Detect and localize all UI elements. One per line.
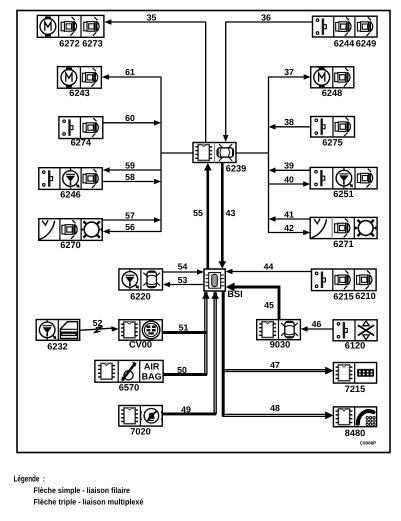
- svg-text:47: 47: [270, 360, 280, 370]
- component 7215 display: [333, 363, 376, 384]
- component 6271 fuel flap: [310, 217, 377, 238]
- wire bus to 6239: [161, 152, 193, 154]
- svg-text:9030: 9030: [270, 340, 290, 350]
- arrowhead 47: [325, 367, 333, 375]
- svg-text:36: 36: [261, 13, 271, 23]
- svg-text:6274: 6274: [71, 138, 92, 148]
- wire 48 double line: [222, 413, 327, 415]
- svg-text:Flèche simple - liaison filair: Flèche simple - liaison filaire: [34, 486, 131, 495]
- component 6251: [310, 167, 377, 189]
- right bus wire: [268, 77, 270, 234]
- svg-text:46: 46: [312, 319, 322, 329]
- component 6232: [36, 320, 79, 341]
- component 6244/6249: [313, 16, 378, 37]
- svg-text:6251: 6251: [333, 189, 353, 199]
- svg-text:54: 54: [178, 262, 188, 272]
- svg-text:43: 43: [226, 208, 236, 218]
- arrowhead 44: [226, 269, 233, 275]
- frame border: [17, 11, 390, 453]
- arrowhead 55 up: [204, 163, 212, 171]
- component CV00 steering column: [119, 320, 162, 341]
- svg-text:Flèche triple - liaison multip: Flèche triple - liaison multiplexé: [34, 498, 144, 507]
- arrowhead 52: [111, 326, 118, 332]
- arrowhead 38: [269, 124, 276, 130]
- component 6270 fuel flap: [39, 219, 102, 241]
- component 6239 central unit: [193, 143, 236, 163]
- svg-text:6239: 6239: [226, 164, 246, 174]
- svg-text:C8088P: C8088P: [360, 441, 376, 446]
- arrowhead 45: [226, 283, 235, 292]
- svg-text:6243: 6243: [69, 88, 89, 98]
- svg-text:6220: 6220: [130, 292, 150, 302]
- wire 56: [109, 231, 161, 233]
- wire 39: [275, 169, 310, 171]
- svg-text:56: 56: [125, 222, 135, 232]
- svg-text:Légende :: Légende :: [14, 474, 46, 484]
- svg-text:53: 53: [178, 275, 188, 285]
- component 6220: [119, 269, 163, 290]
- wire 49 thick: [162, 412, 216, 415]
- svg-text:6271: 6271: [333, 239, 353, 249]
- component 6246: [39, 168, 102, 190]
- component 6243 motor: [58, 67, 102, 89]
- component 6120 window switch: [333, 320, 377, 341]
- svg-text:6270: 6270: [60, 240, 80, 250]
- svg-text:60: 60: [125, 113, 135, 123]
- svg-text:6246: 6246: [60, 190, 80, 200]
- wire 43 thick multiplex: [221, 163, 224, 262]
- wire 57: [102, 219, 155, 221]
- arrowhead 39: [269, 168, 276, 174]
- svg-text:6275: 6275: [322, 138, 342, 148]
- wire 59: [109, 169, 161, 171]
- svg-text:6215: 6215: [333, 292, 353, 302]
- component 6215/6210: [312, 269, 377, 291]
- arrowhead 54: [197, 269, 204, 275]
- component 6272/6273 door lock motor unit: [37, 15, 104, 37]
- svg-text:6232: 6232: [47, 342, 67, 352]
- svg-text:35: 35: [147, 13, 157, 23]
- component 6274 door contact: [59, 117, 103, 139]
- wire 37: [269, 76, 305, 78]
- wire 47 double line: [223, 369, 327, 371]
- svg-text:50: 50: [177, 365, 187, 375]
- wire 61: [108, 76, 161, 78]
- svg-text:6273: 6273: [82, 39, 102, 49]
- arrowhead 59: [103, 167, 110, 173]
- svg-text:AIR: AIR: [144, 361, 160, 371]
- arrowhead 43 down: [219, 261, 227, 268]
- svg-text:40: 40: [284, 175, 294, 185]
- wire 42: [269, 232, 305, 234]
- svg-text:8480: 8480: [345, 428, 365, 438]
- wire 35: [110, 22, 206, 143]
- wire 52 break link: [80, 328, 112, 330]
- svg-text:49: 49: [181, 404, 191, 414]
- arrowhead multiplex 51/50 up: [202, 291, 210, 299]
- svg-text:57: 57: [125, 210, 135, 220]
- svg-text:45: 45: [264, 300, 274, 310]
- wire 53: [169, 284, 204, 286]
- svg-text:39: 39: [284, 161, 294, 171]
- wire BSI down thick: [222, 291, 225, 416]
- svg-text:42: 42: [284, 223, 294, 233]
- wire 40: [269, 183, 305, 185]
- wire 54: [163, 271, 198, 273]
- arrowhead 42: [303, 230, 310, 236]
- arrowhead 37: [304, 74, 311, 80]
- svg-text:CV00: CV00: [129, 340, 152, 350]
- wire 60: [103, 122, 155, 124]
- component 9030 ECU: [257, 320, 301, 340]
- svg-text:58: 58: [125, 172, 135, 182]
- arrowhead 60: [154, 120, 161, 126]
- component 6570 airbag ECU: [95, 360, 163, 382]
- arrowhead 56: [103, 229, 110, 235]
- component BSI box: [204, 269, 225, 291]
- component 6275 door contact: [311, 117, 355, 138]
- multiplex pair to BSI from wire 51/50: [204, 292, 206, 374]
- wire 36: [226, 22, 313, 137]
- arrowhead 46: [301, 326, 308, 332]
- left bus wire: [160, 77, 162, 233]
- svg-text:37: 37: [284, 67, 294, 77]
- arrowhead 53: [163, 282, 170, 288]
- component 6248 motor: [311, 67, 354, 88]
- svg-text:48: 48: [270, 403, 280, 413]
- arrowhead 58: [154, 179, 161, 185]
- svg-text:7020: 7020: [130, 427, 150, 437]
- wire 51 thick: [162, 331, 207, 334]
- svg-text:BSI: BSI: [227, 289, 242, 299]
- component 8480 telephone: [333, 407, 376, 427]
- wire 44: [232, 271, 312, 273]
- arrowhead 35: [104, 19, 111, 25]
- svg-text:6570: 6570: [119, 383, 139, 393]
- svg-text:41: 41: [284, 209, 294, 219]
- svg-text:6120: 6120: [345, 341, 365, 351]
- svg-text:51: 51: [179, 322, 189, 332]
- wire 41: [275, 218, 310, 220]
- svg-text:6210: 6210: [355, 291, 375, 301]
- svg-text:BAG: BAG: [142, 371, 162, 381]
- multiplex pair to BSI from wire 49: [213, 292, 215, 413]
- wire 58: [102, 181, 155, 183]
- arrowhead 36: [223, 135, 229, 142]
- wire 6239 to right bus: [236, 152, 269, 154]
- svg-text:6249: 6249: [356, 39, 376, 49]
- svg-text:38: 38: [284, 117, 294, 127]
- arrowhead 41: [269, 216, 276, 222]
- svg-text:6244: 6244: [334, 39, 355, 49]
- svg-text:6248: 6248: [322, 88, 342, 98]
- arrowhead multiplex 49 up: [211, 291, 219, 299]
- wire 38: [275, 126, 311, 128]
- wire 50 thick: [163, 373, 207, 376]
- arrowhead 61: [102, 74, 109, 80]
- svg-text:7215: 7215: [345, 384, 365, 394]
- svg-text:55: 55: [193, 208, 203, 218]
- svg-text:44: 44: [264, 262, 274, 272]
- wire 55 thick multiplex: [207, 170, 210, 269]
- svg-text:52: 52: [93, 318, 103, 328]
- svg-text:6272: 6272: [59, 39, 79, 49]
- svg-text:59: 59: [125, 160, 135, 170]
- wire 45 thick multiplex: [234, 287, 279, 320]
- wire 46: [307, 328, 333, 330]
- svg-text:61: 61: [125, 67, 135, 77]
- arrowhead 48: [325, 411, 333, 419]
- arrowhead 40: [303, 181, 310, 187]
- component 7020 siren: [119, 406, 163, 427]
- arrowhead 57: [154, 217, 161, 223]
